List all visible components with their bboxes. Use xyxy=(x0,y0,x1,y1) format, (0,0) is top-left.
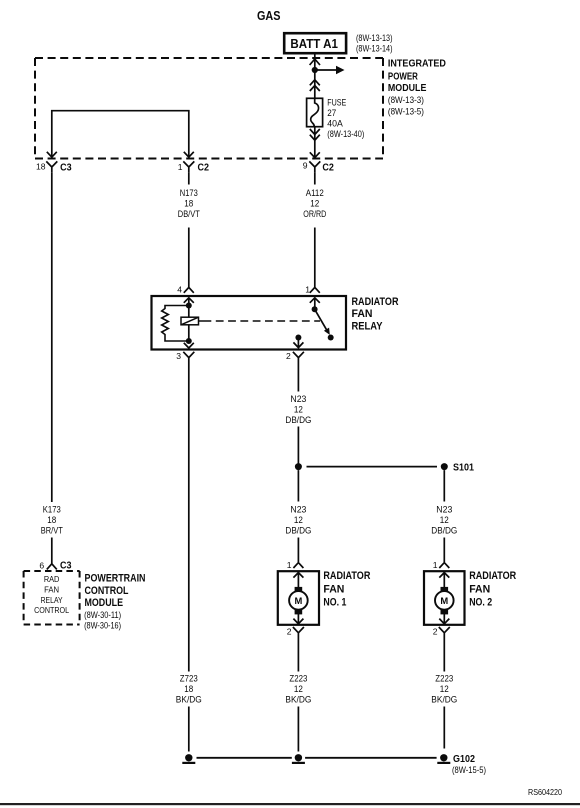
fan2 pin 1 chevron inside xyxy=(439,573,449,578)
svg-text:BK/DG: BK/DG xyxy=(176,695,202,705)
connector at relay pin 3 (female, below box) xyxy=(183,352,194,362)
svg-text:C3: C3 xyxy=(60,162,72,174)
svg-text:RADIATOR: RADIATOR xyxy=(352,296,399,308)
svg-text:12: 12 xyxy=(440,684,449,694)
svg-text:DB/DG: DB/DG xyxy=(285,526,311,536)
relay pin 1 chevron inside box xyxy=(310,298,320,303)
svg-text:POWERTRAIN: POWERTRAIN xyxy=(85,573,146,585)
svg-text:(8W-13-40): (8W-13-40) xyxy=(327,129,364,139)
wire A112 upper segment xyxy=(314,172,316,184)
ground bus wire left-middle xyxy=(197,757,292,759)
svg-text:BATT A1: BATT A1 xyxy=(290,37,338,51)
node: relay pin 2 contact xyxy=(295,335,301,341)
svg-text:MODULE: MODULE xyxy=(388,82,427,94)
svg-text:40A: 40A xyxy=(327,118,343,128)
svg-text:RADIATOR: RADIATOR xyxy=(323,570,370,582)
wire Z223 fan2 upper segment xyxy=(443,637,445,672)
fan1 motor circle M xyxy=(289,591,308,610)
svg-text:FAN: FAN xyxy=(323,583,344,595)
fan1 motor upper brush xyxy=(295,587,303,592)
connector arrowhead at IPM bottom (pin 9) xyxy=(310,152,320,157)
fan1 pin 1 chevron inside xyxy=(293,573,303,578)
svg-text:2: 2 xyxy=(286,351,291,361)
svg-text:(8W-30-16): (8W-30-16) xyxy=(84,621,121,631)
relay box Radiator Fan Relay xyxy=(152,296,347,350)
fan2 pin 2 chevron inside xyxy=(439,619,449,624)
fan1 pin 2 connector (female, below box) xyxy=(293,627,304,637)
svg-text:N23: N23 xyxy=(290,394,306,404)
node: switch pivot xyxy=(312,306,318,312)
svg-text:RELAY: RELAY xyxy=(352,320,384,332)
arrowhead at C2 pin 1 xyxy=(184,152,194,157)
fan2 wire to motor xyxy=(443,573,445,591)
wire N173 upper segment xyxy=(188,172,190,184)
svg-text:(8W-13-14): (8W-13-14) xyxy=(356,43,393,53)
svg-text:1: 1 xyxy=(433,560,438,570)
svg-text:2: 2 xyxy=(287,627,292,637)
wire K173: C3 pin18 down to PCM (upper segment) xyxy=(51,172,53,502)
svg-text:1: 1 xyxy=(287,560,292,570)
wire pin1 to switch pivot xyxy=(314,299,316,310)
svg-text:(8W-13-5): (8W-13-5) xyxy=(388,106,424,116)
svg-text:DB/DG: DB/DG xyxy=(431,526,457,536)
connector C2 pin 9 (female) xyxy=(309,161,320,172)
svg-text:18: 18 xyxy=(184,199,193,209)
connector at relay pin 2 (female, below box) xyxy=(293,352,304,362)
fan1 pin 1 connector (male) xyxy=(293,563,303,568)
svg-text:G102: G102 xyxy=(453,753,475,765)
fan1 wire to motor xyxy=(297,573,299,591)
wire Z223 fan1 upper segment xyxy=(297,637,299,672)
relay switch arm (open, with arrowhead) xyxy=(315,309,328,332)
svg-text:S101: S101 xyxy=(453,461,474,473)
ground symbol middle (fan1) xyxy=(295,754,302,761)
relay armature box xyxy=(181,317,199,325)
fan2 pin 2 connector (female, below box) xyxy=(439,627,450,637)
wire K173 lower segment xyxy=(51,538,53,564)
svg-text:MODULE: MODULE xyxy=(85,597,124,609)
wire A112 lower segment to relay pin 1 xyxy=(314,228,316,288)
wire N23 to fan1 (upper segment) xyxy=(297,470,299,501)
svg-text:12: 12 xyxy=(440,515,449,525)
svg-text:M: M xyxy=(440,595,448,606)
connector arrow at IPM top boundary xyxy=(310,59,320,65)
svg-text:FAN: FAN xyxy=(469,583,490,595)
svg-text:BK/DG: BK/DG xyxy=(285,695,311,705)
svg-text:BR/VT: BR/VT xyxy=(41,526,64,536)
svg-text:FAN: FAN xyxy=(352,308,373,320)
fan2 motor circle M xyxy=(435,591,454,610)
svg-text:Z723: Z723 xyxy=(180,674,198,684)
svg-text:2: 2 xyxy=(433,627,438,637)
ground bus wire middle-right xyxy=(305,757,437,759)
svg-text:3: 3 xyxy=(176,351,181,361)
svg-text:12: 12 xyxy=(310,199,319,209)
svg-text:INTEGRATED: INTEGRATED xyxy=(388,58,446,70)
node: battery feed junction xyxy=(312,67,318,73)
fan1 motor lower brush xyxy=(295,609,303,614)
node: switch throw contact xyxy=(328,335,334,341)
relay pin 1 connector (male, above box) xyxy=(310,287,320,292)
svg-text:9: 9 xyxy=(303,161,308,171)
module box: Powertrain Control Module (dashed) xyxy=(24,570,80,572)
wire pin4 to coil junction xyxy=(188,299,190,342)
svg-text:12: 12 xyxy=(294,515,303,525)
svg-text:CONTROL: CONTROL xyxy=(85,585,129,597)
svg-text:GAS: GAS xyxy=(257,9,281,23)
svg-text:NO. 2: NO. 2 xyxy=(469,596,492,608)
svg-text:N23: N23 xyxy=(436,505,452,515)
svg-text:Z223: Z223 xyxy=(289,674,307,684)
connector C3 pin 6 (male chevron) xyxy=(47,564,57,570)
svg-text:(8W-15-5): (8W-15-5) xyxy=(452,765,486,775)
svg-text:(8W-30-11): (8W-30-11) xyxy=(84,610,121,620)
svg-text:DB/VT: DB/VT xyxy=(178,209,201,219)
wire N23 to fan1 (lower segment) xyxy=(297,538,299,563)
svg-text:C2: C2 xyxy=(322,161,334,173)
svg-text:RADIATOR: RADIATOR xyxy=(469,570,516,582)
wire: junction to fuse xyxy=(314,70,316,98)
connector C2 pin 1 (female) xyxy=(183,161,194,172)
wire Z223 fan2 lower segment to ground xyxy=(443,707,445,749)
ground symbol right G102 xyxy=(440,754,447,761)
svg-text:4: 4 xyxy=(177,285,182,295)
fan2 motor upper brush xyxy=(441,587,449,592)
svg-text:12: 12 xyxy=(294,684,303,694)
relay pin 2 chevron inside box xyxy=(293,342,303,347)
svg-text:18: 18 xyxy=(47,515,56,525)
svg-text:12: 12 xyxy=(294,405,303,415)
svg-text:RS604220: RS604220 xyxy=(528,787,562,797)
fan1 pin 2 chevron inside xyxy=(293,619,303,624)
wire Z723 lower segment to ground xyxy=(188,707,190,752)
svg-text:18: 18 xyxy=(36,161,46,171)
svg-text:(8W-13-13): (8W-13-13) xyxy=(356,33,393,43)
wire: IPM internal jumper (C3 pin 18 to C2 pin 1) xyxy=(52,111,189,157)
wire N23 lower segment to splice xyxy=(297,427,299,467)
svg-text:1: 1 xyxy=(178,162,183,172)
relay pin 3 chevron inside box xyxy=(184,343,194,348)
svg-text:RELAY: RELAY xyxy=(41,595,63,605)
wire: BATT A1 down into IPM xyxy=(314,54,316,70)
svg-text:Z223: Z223 xyxy=(435,674,453,684)
svg-text:BK/DG: BK/DG xyxy=(431,695,457,705)
relay pin 4 connector (male, above box) xyxy=(184,287,194,292)
svg-text:N173: N173 xyxy=(180,188,198,198)
wire N23 to fan2 (upper segment) xyxy=(443,470,445,501)
arrowhead at C3 pin 18 xyxy=(47,152,57,157)
svg-text:N23: N23 xyxy=(290,505,306,515)
node: coil bottom junction xyxy=(186,338,192,344)
svg-text:NO. 1: NO. 1 xyxy=(323,596,346,608)
double chevron below fuse xyxy=(310,129,320,140)
svg-text:FAN: FAN xyxy=(44,585,59,595)
svg-text:DB/DG: DB/DG xyxy=(285,415,311,425)
svg-text:FUSE: FUSE xyxy=(327,97,346,107)
wire N23 to fan2 (lower segment) xyxy=(443,538,445,563)
wire N23 from relay pin 2 (upper segment) xyxy=(297,362,299,392)
wire pin2 stub xyxy=(297,338,299,348)
battery feed box BATT A1 xyxy=(284,33,346,53)
svg-text:1: 1 xyxy=(305,285,310,295)
svg-text:A112: A112 xyxy=(306,188,324,198)
wire Z223 fan1 lower segment to ground xyxy=(297,707,299,752)
svg-text:18: 18 xyxy=(184,684,193,694)
fan2 box xyxy=(424,571,465,625)
wire N173 lower segment to relay pin 4 xyxy=(188,228,190,288)
wire Z723 upper segment (relay pin 3 to label) xyxy=(188,362,190,672)
page footer rule xyxy=(0,803,580,805)
fan2 wire motor to pin 2 xyxy=(443,614,445,624)
svg-text:OR/RD: OR/RD xyxy=(303,209,326,219)
splice S101 xyxy=(295,463,302,470)
relay pin 4 chevron inside box xyxy=(184,298,194,303)
svg-text:C2: C2 xyxy=(198,162,210,174)
svg-text:RAD: RAD xyxy=(44,574,60,584)
double chevron (in-line connector) above fuse xyxy=(310,80,320,91)
fan2 motor lower brush xyxy=(441,609,449,614)
connector C3 pin 18 (female) xyxy=(46,161,57,172)
svg-text:C3: C3 xyxy=(60,560,72,572)
wire: branch feed arrow to right xyxy=(315,69,337,71)
module box: Integrated Power Module (dashed) xyxy=(35,57,383,59)
svg-text:27: 27 xyxy=(327,108,336,118)
node: coil top junction xyxy=(186,303,192,309)
fan1 wire motor to pin 2 xyxy=(297,614,299,624)
ground symbol left (Z723) xyxy=(185,754,192,761)
wire: fuse to C2 pin 9 xyxy=(314,127,316,158)
svg-text:K173: K173 xyxy=(43,505,61,515)
fan1 box xyxy=(278,571,319,625)
relay control dashed line xyxy=(204,320,321,322)
svg-text:M: M xyxy=(294,595,302,606)
svg-text:6: 6 xyxy=(39,561,44,571)
fan2 pin 1 connector (male) xyxy=(439,563,449,568)
fuse F27 40A xyxy=(307,98,323,126)
svg-text:CONTROL: CONTROL xyxy=(34,605,69,615)
svg-text:(8W-13-3): (8W-13-3) xyxy=(388,95,424,105)
relay coil (zigzag) xyxy=(162,306,189,342)
